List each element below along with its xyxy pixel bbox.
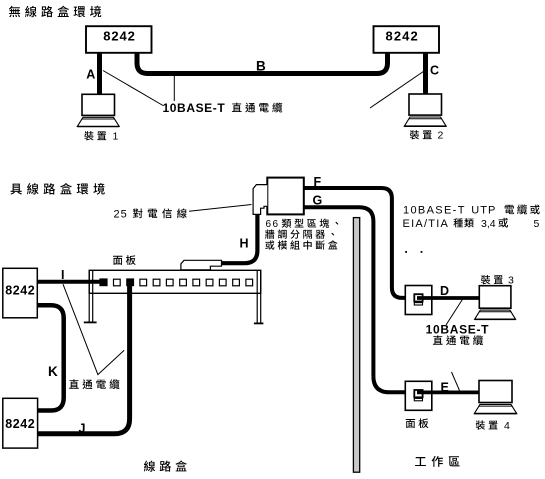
panel right end cap	[256, 270, 258, 322]
svg-text:8242: 8242	[386, 29, 419, 44]
hub 8242 top-left box	[86, 26, 152, 53]
svg-text:UTP: UTP	[471, 205, 496, 217]
svg-text:10BASE-T: 10BASE-T	[163, 101, 226, 115]
panel left end cap	[88, 270, 90, 321]
svg-text:4: 4	[504, 420, 510, 432]
wire H: 66-block tab down to panel pad	[222, 214, 258, 263]
svg-text:I: I	[61, 268, 64, 282]
wire C: hub2 to device2	[423, 53, 428, 95]
device 1 computer	[82, 94, 115, 115]
section title: no-wiring-closet environment	[9, 6, 20, 18]
label straight-through cables (bottom-left)	[69, 379, 79, 388]
svg-text:F: F	[314, 175, 322, 189]
wire G: 66-block to faceplate E	[304, 207, 407, 392]
wire K: upper hub to lower hub	[37, 305, 63, 410]
pointer line to wire C	[370, 69, 427, 108]
hub 8242 box left-upper	[3, 268, 38, 318]
wire J: lower hub to panel port 3	[38, 286, 130, 434]
svg-text:D: D	[440, 284, 449, 298]
faceplate D box	[405, 286, 432, 315]
svg-text:5: 5	[534, 218, 540, 230]
svg-text:3,4: 3,4	[481, 218, 496, 230]
panel port 1 jack (black, wire I terminal)	[99, 278, 107, 286]
label device 3	[481, 275, 490, 284]
section title: with-wiring-closet environment	[10, 184, 21, 195]
pointer V lines from straight-through-cable label to wires I and J	[63, 284, 124, 374]
svg-text:J: J	[79, 421, 86, 435]
66-block left tab	[253, 185, 267, 215]
label wiring closet	[144, 461, 155, 472]
continuation dots	[405, 251, 407, 253]
pointer line from 25-pair label to tab	[189, 205, 252, 212]
panel ports row	[114, 279, 121, 286]
svg-text:B: B	[256, 59, 266, 74]
svg-text:2: 2	[438, 130, 444, 142]
svg-text:8242: 8242	[5, 283, 35, 297]
device 4 computer	[479, 381, 512, 403]
svg-text:66: 66	[266, 219, 280, 230]
66-type block box U1	[267, 178, 304, 215]
svg-text:EIA/TIA: EIA/TIA	[403, 218, 450, 230]
svg-text:10BASE-T: 10BASE-T	[403, 205, 466, 217]
wire D: faceplate to device 3	[417, 296, 480, 300]
svg-text:E: E	[441, 381, 449, 395]
faceplate E box	[405, 381, 432, 410]
wire E: faceplate to device 4	[417, 391, 479, 395]
device 3 computer	[479, 286, 511, 309]
pointer line at wire E	[452, 372, 460, 391]
pointer line from wire B down to label	[173, 76, 175, 101]
label work area	[415, 457, 426, 466]
svg-text:H: H	[240, 236, 249, 250]
svg-text:G: G	[313, 194, 323, 208]
svg-text:K: K	[48, 364, 58, 379]
panel port 3 jack (black, wire J terminal)	[126, 278, 134, 286]
wire I: upper hub to panel port 1	[37, 280, 101, 284]
label device 1	[84, 131, 93, 140]
label G	[311, 195, 323, 205]
svg-text:3: 3	[508, 274, 514, 286]
hub 8242 top-right box	[374, 26, 440, 53]
label panel (work area faceplate)	[406, 419, 415, 428]
patch panel body	[89, 270, 261, 293]
svg-text:25: 25	[114, 209, 128, 221]
svg-text:1: 1	[113, 131, 119, 143]
pointer line from 10BASE-T label to wire D	[446, 299, 463, 326]
svg-text:A: A	[86, 68, 95, 82]
wire F: 66-block to faceplate D	[304, 188, 406, 298]
svg-text:10BASE-T: 10BASE-T	[426, 322, 490, 336]
pad on top of patch panel	[181, 260, 222, 270]
svg-text:8242: 8242	[103, 29, 136, 44]
device 2 computer	[409, 94, 442, 115]
wire B: hub1 to hub2	[137, 53, 388, 74]
label device 4	[476, 420, 485, 429]
label panel (wiring closet)	[113, 256, 122, 265]
label device 2	[410, 130, 419, 139]
wire A: hub1 to device1	[97, 53, 102, 95]
hub 8242 box left-lower	[3, 398, 38, 448]
svg-text:8242: 8242	[5, 417, 35, 431]
svg-text:C: C	[430, 64, 439, 78]
pointer line to wire A	[103, 71, 163, 106]
gray separator bar between wiring closet and work area	[353, 218, 359, 473]
